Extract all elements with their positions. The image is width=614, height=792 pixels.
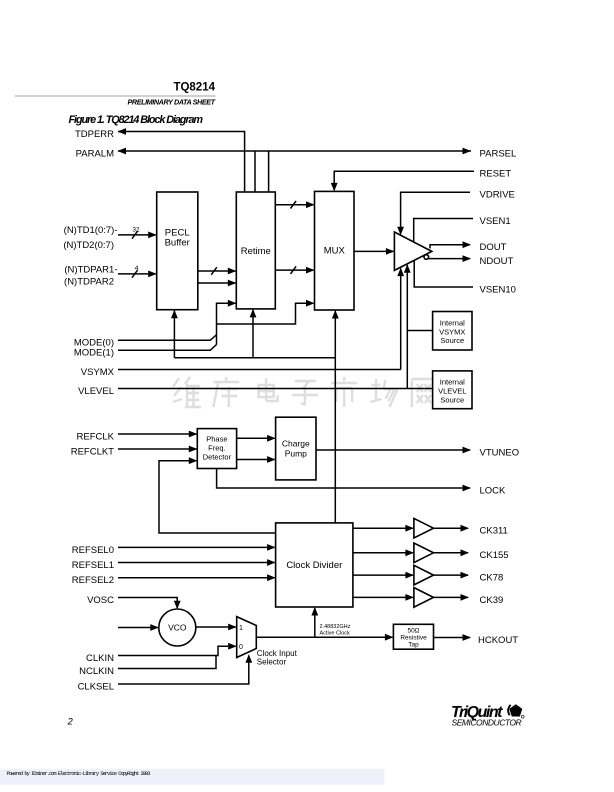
svg-text:2.48832GHz: 2.48832GHz [320,624,351,630]
svg-text:VDRIVE: VDRIVE [480,190,515,201]
svg-text:32: 32 [132,227,140,234]
svg-text:PARSEL: PARSEL [480,148,517,159]
svg-text:HCKOUT: HCKOUT [478,635,518,646]
svg-text:REFSEL1: REFSEL1 [72,560,114,571]
svg-text:Tap: Tap [408,642,419,649]
svg-text:Source: Source [440,336,464,345]
svg-text:MODE(1): MODE(1) [74,348,114,359]
svg-text:0: 0 [239,644,243,651]
svg-text:Phase: Phase [206,435,227,444]
svg-text:SEMICONDUCTOR: SEMICONDUCTOR [452,718,523,728]
svg-text:VSYMX: VSYMX [81,367,115,378]
svg-text:REFSEL0: REFSEL0 [72,545,114,556]
svg-text:4: 4 [135,265,139,272]
svg-text:Retime: Retime [241,246,271,257]
svg-text:TQ8214: TQ8214 [173,82,215,94]
svg-text:CLKSEL: CLKSEL [78,681,114,692]
svg-text:NDOUT: NDOUT [480,256,514,267]
svg-text:Internal: Internal [440,378,465,387]
svg-text:REFCLKT: REFCLKT [71,446,114,457]
svg-text:Powered by ICminer.com Electro: Powered by ICminer.com Electronic-Librar… [7,771,151,777]
svg-text:CK39: CK39 [480,595,504,606]
svg-text:CLKIN: CLKIN [86,653,114,664]
svg-text:CK155: CK155 [480,550,509,561]
svg-text:(N)TD2(0:7): (N)TD2(0:7) [63,240,114,251]
svg-text:VTUNEO: VTUNEO [480,447,520,458]
svg-text:Source: Source [440,395,464,404]
svg-text:REFSEL2: REFSEL2 [72,575,114,586]
svg-text:Detector: Detector [203,453,232,462]
svg-text:Resistive: Resistive [400,635,427,642]
svg-text:MUX: MUX [324,246,346,257]
svg-text:PARALM: PARALM [76,148,114,159]
svg-text:Pump: Pump [285,449,307,459]
svg-text:Charge: Charge [282,439,310,449]
svg-text:VCO: VCO [168,623,187,633]
svg-text:VLEVEL: VLEVEL [438,387,466,396]
svg-text:VSEN1: VSEN1 [480,216,511,227]
svg-text:PRELIMINARY DATA SHEET: PRELIMINARY DATA SHEET [128,98,216,107]
svg-text:REFCLK: REFCLK [77,431,115,442]
svg-text:1: 1 [239,625,243,632]
svg-text:Buffer: Buffer [165,238,190,249]
svg-text:VSYMX: VSYMX [439,327,465,336]
svg-text:VLEVEL: VLEVEL [78,386,114,397]
svg-text:Selector: Selector [257,658,287,667]
svg-text:50Ω: 50Ω [407,628,419,635]
svg-text:RESET: RESET [480,169,512,180]
svg-text:Freq.: Freq. [208,444,226,453]
svg-text:VOSC: VOSC [87,595,114,606]
svg-text:2: 2 [67,717,74,728]
svg-text:Active Clock: Active Clock [320,631,351,637]
svg-text:CK311: CK311 [480,526,508,537]
svg-text:DOUT: DOUT [480,242,507,253]
svg-text:Figure 1. TQ8214 Block Diagram: Figure 1. TQ8214 Block Diagram [69,114,204,126]
svg-text:(N)TD1(0:7)-: (N)TD1(0:7)- [64,225,118,236]
svg-text:NCLKIN: NCLKIN [79,666,114,677]
svg-text:Clock Divider: Clock Divider [286,560,342,571]
svg-text:(N)TDPAR2: (N)TDPAR2 [64,277,114,288]
svg-text:(N)TDPAR1-: (N)TDPAR1- [64,265,117,276]
svg-text:TDPERR: TDPERR [75,129,114,140]
svg-text:LOCK: LOCK [480,485,507,496]
svg-text:VSEN10: VSEN10 [480,284,516,295]
svg-text:CK78: CK78 [480,573,504,584]
svg-text:Internal: Internal [440,318,465,327]
